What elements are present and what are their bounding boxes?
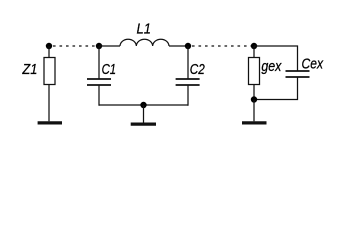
svg-text:gex: gex <box>261 59 282 75</box>
inductor L1 <box>120 39 169 46</box>
node B (top of C1 / left of L1) <box>96 43 102 49</box>
wire gex bottom to node E <box>253 85 255 100</box>
node F (bottom rail junction) <box>140 102 146 108</box>
wire node D to gex top <box>253 46 255 58</box>
svg-text:L1: L1 <box>137 21 152 37</box>
capacitor Cex <box>286 71 310 77</box>
conductance gex <box>249 58 260 85</box>
wire node B to C1 top plate <box>98 46 100 79</box>
node C (top of C2 / right of L1) <box>185 43 191 49</box>
capacitor C2 <box>176 79 200 85</box>
wire node F to ground <box>143 105 145 123</box>
wire Z1 bottom to ground <box>48 85 50 122</box>
capacitor C1 <box>87 79 111 85</box>
wire C1 bottom plate to bottom rail <box>98 85 100 106</box>
wire dashed C to D <box>192 45 251 47</box>
wire C2 bottom plate to bottom rail <box>187 85 189 106</box>
wire node B to L1 left <box>99 45 120 47</box>
wire dashed A to B <box>53 45 96 47</box>
svg-text:C2: C2 <box>190 62 205 78</box>
wire L1 right to node C <box>169 45 188 47</box>
ground (right, under gex) <box>242 121 267 124</box>
wire bottom rail C1 to C2 <box>99 104 188 106</box>
wire Cex bottom plate to node E <box>254 77 298 100</box>
wire node C to C2 top plate <box>187 46 189 79</box>
impedance Z1 <box>44 58 55 85</box>
wire node D to Cex top corner <box>254 46 298 71</box>
node D (top of gex) <box>251 43 257 49</box>
svg-text:Cex: Cex <box>302 56 324 72</box>
node E (bottom of gex) <box>251 96 257 102</box>
wire node A to Z1 top <box>48 46 50 58</box>
wire node E to ground <box>253 100 255 122</box>
node A (input, top of Z1) <box>46 43 52 49</box>
ground (middle, under LC rail) <box>131 122 156 125</box>
svg-text:Z1: Z1 <box>22 62 38 78</box>
ground (left, under Z1) <box>38 121 62 124</box>
svg-text:C1: C1 <box>102 62 117 78</box>
